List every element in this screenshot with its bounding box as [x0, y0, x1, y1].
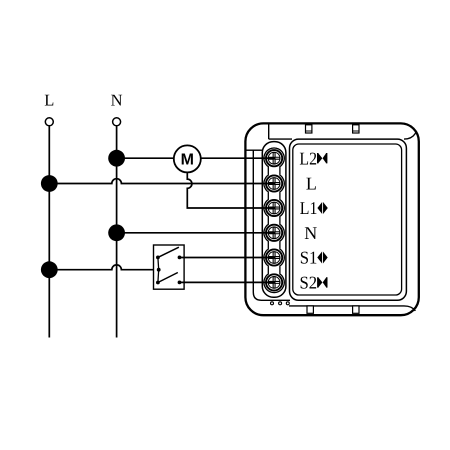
junction dot on L line (to terminal L): [41, 175, 58, 192]
wire N junction to motor: [117, 157, 174, 159]
wire L vertical: [48, 126, 50, 338]
switch contact dots: [156, 256, 181, 285]
switch lever 1: [158, 247, 179, 257]
wire switch to terminal S2: [180, 281, 275, 283]
terminal screw L1: [266, 200, 283, 216]
terminal block housing: [262, 142, 286, 298]
terminal screw N: [266, 225, 283, 241]
top clip tab 2: [353, 125, 359, 133]
terminal screw L2: [266, 150, 283, 166]
svg-text:L2: L2: [299, 148, 317, 168]
junction dot on L line (to switch): [41, 261, 58, 278]
case bottom seam: [289, 306, 415, 311]
svg-text:L1: L1: [300, 198, 318, 218]
case seam left/bottom: [253, 150, 290, 300]
terminal screw S1: [266, 249, 283, 265]
terminal lead wires: [245, 158, 274, 282]
icon open arrows (L1): [317, 202, 327, 214]
terminal circle L: [45, 118, 53, 126]
case step line left: [247, 149, 263, 151]
case seam top-left connector: [268, 125, 270, 140]
lead wire tips: [262, 158, 274, 282]
switch lever 2: [158, 273, 178, 283]
wire switch to terminal S1: [180, 257, 275, 259]
terminal screw S2: [266, 274, 283, 290]
vent holes: [271, 302, 290, 305]
svg-text:S1: S1: [300, 248, 318, 268]
svg-text:L: L: [44, 91, 54, 110]
bottom clip tab 1: [307, 306, 313, 313]
terminal block scallop: [264, 148, 284, 293]
wire L junction to terminal L (hops over N line): [49, 179, 274, 184]
wire N junction to terminal N: [117, 232, 275, 234]
case seam top tail: [269, 138, 292, 140]
svg-text:L: L: [306, 174, 317, 194]
motor M: [174, 145, 201, 172]
case seam top-right stub: [404, 132, 416, 139]
switch left bus wire: [157, 257, 160, 282]
svg-text:M: M: [181, 151, 194, 168]
wire motor to terminal L2: [201, 157, 274, 159]
wall switch S (box): [154, 245, 185, 289]
junction dot on N line (motor feed): [108, 150, 125, 167]
module case outline: [245, 123, 418, 315]
icon close arrows (L2): [317, 153, 327, 163]
svg-text:S2: S2: [300, 273, 318, 293]
bottom clip tab 2: [353, 306, 359, 313]
junction dot on N line (to terminal N): [108, 224, 125, 241]
wire motor to terminal L1 (hops over L wire): [187, 172, 274, 208]
wire L junction to switch common (hops over N line): [49, 265, 158, 270]
label panel inner: [293, 144, 402, 295]
top clip tab 1: [306, 125, 312, 133]
svg-text:N: N: [304, 223, 317, 243]
icon close arrows (S2): [317, 277, 327, 287]
terminal screw L: [266, 175, 283, 191]
icon open arrows (S1): [317, 252, 327, 264]
svg-text:N: N: [111, 91, 123, 110]
terminal circle N: [113, 118, 121, 126]
wire N vertical: [116, 126, 118, 338]
label panel outer: [290, 139, 407, 300]
